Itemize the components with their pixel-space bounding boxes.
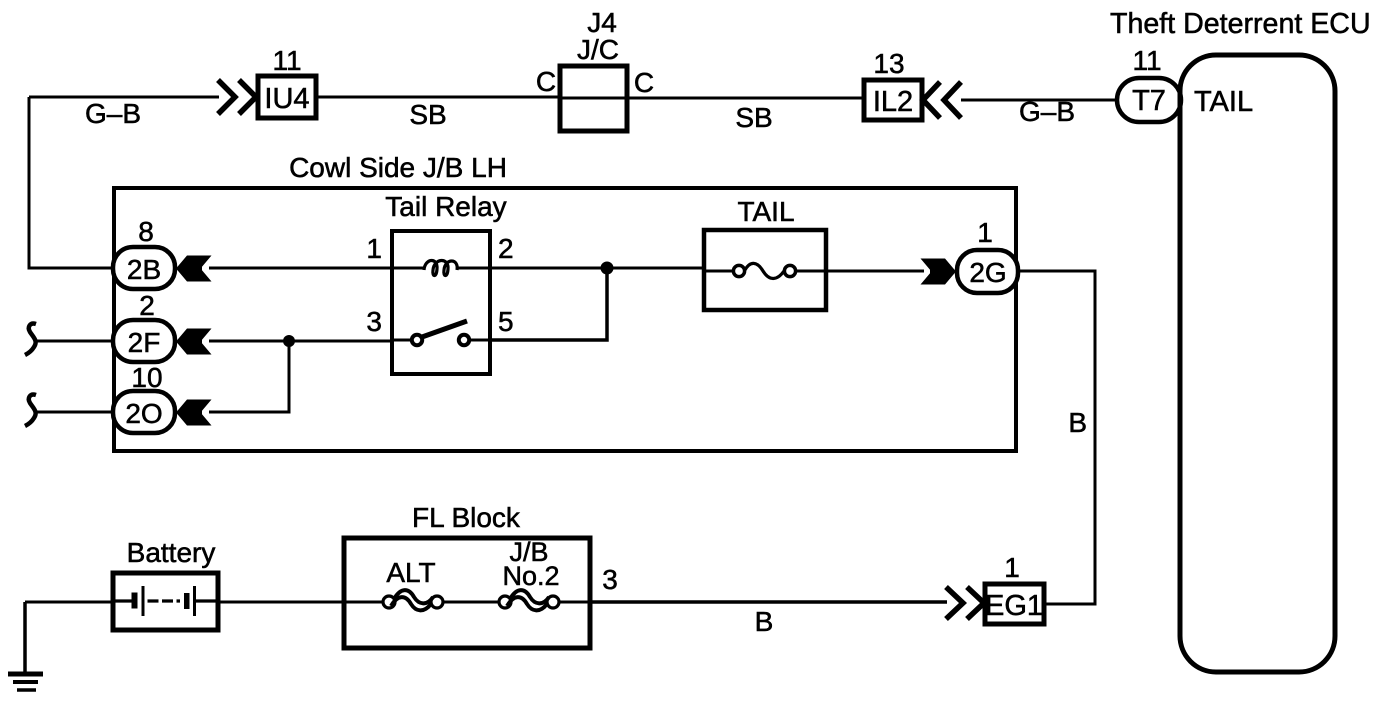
connector arrows << after IL2 — [923, 82, 961, 118]
wire G-B from left riser to connector IU4 — [29, 96, 219, 99]
connector IL2 — [864, 80, 922, 120]
svg-text:SB: SB — [409, 99, 446, 130]
svg-text:1: 1 — [977, 217, 993, 248]
wire fuse to 2G — [826, 270, 924, 273]
svg-text:B: B — [755, 606, 774, 637]
svg-text:ALT: ALT — [386, 557, 435, 588]
terminal 2O oval — [113, 391, 175, 433]
battery box — [113, 573, 218, 630]
wire 2B to relay pin 1 — [209, 267, 392, 270]
wire riser from top wire down to terminal 2B — [29, 97, 113, 268]
connector EG1 — [985, 584, 1044, 624]
connector T7 oval — [1117, 78, 1181, 122]
wire B from 2G down to EG1 — [1016, 271, 1095, 604]
svg-text:Cowl Side J/B LH: Cowl Side J/B LH — [289, 152, 507, 183]
relay switch contacts — [392, 335, 490, 345]
svg-text:2B: 2B — [127, 254, 161, 285]
relay switch arm — [422, 321, 467, 337]
arrow into 2O — [176, 400, 212, 426]
terminal 2G oval — [957, 250, 1018, 293]
fusible link ALT — [344, 590, 498, 610]
arrow into 2F — [176, 329, 212, 355]
svg-text:G–B: G–B — [1019, 96, 1075, 127]
fusible link J/B No.2 — [499, 590, 590, 610]
svg-text:C: C — [536, 66, 556, 97]
Cowl Side J/B LH box — [114, 188, 1016, 451]
fuse TAIL box — [704, 230, 826, 310]
svg-text:J/C: J/C — [577, 34, 619, 65]
wire SB from IU4 to junction J4 — [316, 96, 562, 99]
junction dot at node above pin 5 — [601, 262, 614, 275]
battery symbol — [115, 586, 217, 616]
relay coil — [392, 260, 490, 275]
terminal 2B oval — [113, 247, 175, 289]
wire 2O up to junction on 2F wire — [209, 341, 289, 412]
svg-text:TAIL: TAIL — [1194, 86, 1253, 118]
connector arrows >> into IU4 — [218, 80, 256, 114]
svg-text:5: 5 — [498, 306, 514, 337]
svg-text:3: 3 — [366, 306, 382, 337]
svg-text:FL Block: FL Block — [412, 502, 521, 533]
wire into 2O — [37, 411, 113, 414]
svg-text:B: B — [1068, 407, 1087, 438]
svg-text:EG1: EG1 — [985, 590, 1043, 622]
svg-text:1: 1 — [366, 233, 382, 264]
svg-text:C: C — [634, 67, 654, 98]
svg-text:13: 13 — [873, 48, 904, 79]
wire 2F to relay pin 3 — [209, 340, 392, 343]
svg-text:IL2: IL2 — [873, 86, 913, 118]
svg-text:11: 11 — [272, 45, 301, 76]
svg-text:8: 8 — [138, 216, 154, 247]
arrow into 2B — [176, 256, 212, 282]
wire relay pin 2 to TAIL fuse — [490, 267, 706, 270]
junction dot on 2F wire — [283, 335, 295, 347]
FL Block box — [344, 538, 590, 648]
svg-text:SB: SB — [735, 102, 772, 133]
svg-text:10: 10 — [131, 362, 162, 393]
svg-text:TAIL: TAIL — [737, 196, 794, 227]
svg-text:3: 3 — [602, 564, 618, 595]
connector IU4 — [258, 76, 316, 118]
svg-text:No.2: No.2 — [502, 561, 559, 591]
svg-text:2: 2 — [498, 233, 514, 264]
connector arrows >> into EG1 — [946, 587, 984, 619]
svg-text:Theft Deterrent ECU: Theft Deterrent ECU — [1110, 8, 1371, 40]
svg-text:Battery: Battery — [127, 537, 216, 568]
svg-text:T7: T7 — [1132, 85, 1166, 117]
break squiggle at 2F wire — [25, 324, 36, 355]
ground symbol — [8, 602, 43, 690]
wire from junction down to relay pin 5 — [490, 268, 607, 340]
svg-text:2O: 2O — [125, 398, 162, 429]
break squiggle at 2O wire — [25, 395, 36, 426]
Tail Relay box — [392, 231, 490, 374]
wire B from FL block to EG1 — [590, 600, 947, 604]
svg-text:11: 11 — [1132, 45, 1161, 76]
Theft Deterrent ECU box — [1180, 55, 1335, 672]
svg-text:1: 1 — [1004, 552, 1020, 583]
fuse TAIL symbol — [704, 263, 826, 278]
svg-text:2F: 2F — [128, 327, 161, 358]
junction connector J4 J/C box — [560, 66, 627, 131]
wire ground to battery — [25, 601, 114, 604]
svg-text:2G: 2G — [969, 257, 1006, 288]
wire through J4 to IL2 — [562, 97, 864, 100]
wire G-B from T7 to IL2 — [961, 99, 1122, 102]
arrow into 2G — [921, 259, 957, 285]
svg-text:Tail Relay: Tail Relay — [385, 191, 506, 222]
svg-text:G–B: G–B — [85, 98, 141, 129]
svg-text:2: 2 — [139, 290, 155, 321]
svg-text:IU4: IU4 — [264, 83, 309, 115]
wire into 2F — [37, 340, 113, 343]
terminal 2F oval — [113, 320, 175, 362]
wire battery to FL block — [218, 601, 345, 604]
